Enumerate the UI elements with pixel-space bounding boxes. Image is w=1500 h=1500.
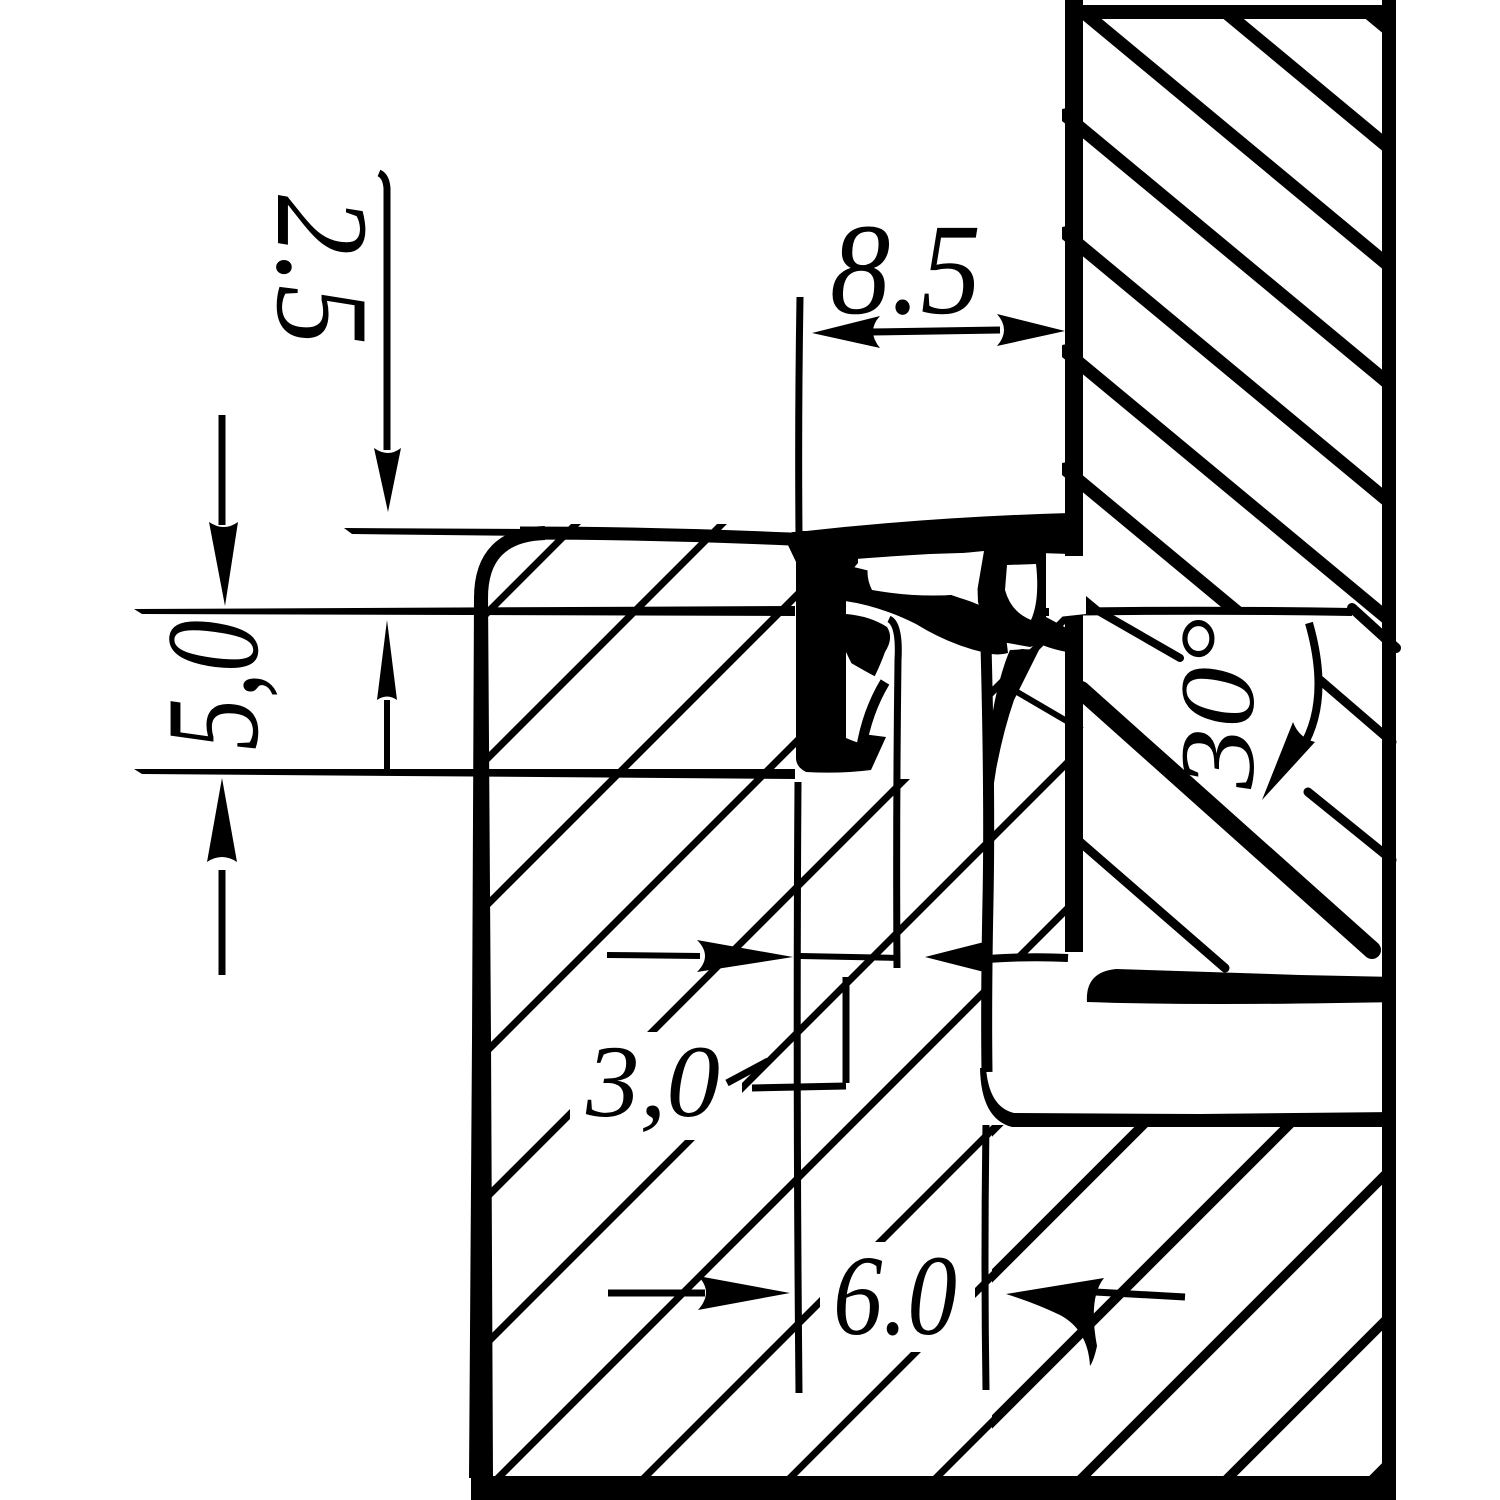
left edge	[469, 594, 493, 1478]
wire hatch lines	[1065, 0, 1500, 122]
svg-text:6.0: 6.0	[833, 1232, 957, 1359]
dimension line 3,0 left	[607, 955, 700, 956]
svg-text:3,0: 3,0	[585, 1025, 720, 1139]
surface line y=958	[987, 957, 1068, 959]
seal white gap right of arch	[1049, 556, 1086, 618]
dimension line 2.5	[379, 173, 387, 450]
dimension line 5,0 lower	[219, 870, 226, 975]
label halo 6.0	[820, 1242, 975, 1352]
right edge full height	[1382, 0, 1396, 1500]
svg-text:30°: 30°	[1159, 618, 1276, 790]
leader line from 3,0	[727, 1061, 768, 1083]
arrowhead 2.5 down	[374, 448, 401, 512]
surface line y=770	[134, 769, 795, 779]
label halo 3,0	[570, 1032, 742, 1140]
svg-text:5,0: 5,0	[139, 620, 286, 750]
surface line y=611 right part	[995, 611, 1352, 613]
wire hatch lines	[0, 0, 1130, 1130]
dimension line 6.0 left	[608, 1290, 705, 1297]
groove right wall	[986, 645, 989, 1072]
seal arch white hole	[1005, 564, 1037, 620]
dimension 6.0	[608, 1232, 1185, 1366]
slot line x=893	[889, 619, 898, 968]
arrowhead 6.0 left-pointing swept	[1006, 1278, 1104, 1366]
seal arch	[976, 545, 1046, 647]
inner arrowhead up	[377, 620, 397, 700]
dimension 8.5	[799, 198, 1065, 534]
arrowhead 8.5 right	[997, 314, 1065, 346]
seal C-notch white bay	[846, 660, 882, 744]
dimension 2.5	[249, 173, 401, 512]
arc arrow line	[1302, 623, 1318, 748]
surface line y=610	[134, 606, 795, 616]
top-left rounded corner	[481, 533, 545, 598]
arrowhead 5,0 down	[209, 522, 238, 606]
dimension line 8.5	[870, 330, 1000, 332]
inner dimension line x=387	[384, 700, 390, 770]
dimension 3,0	[585, 940, 992, 1139]
arrowhead 3,0 right-pointing	[697, 940, 793, 972]
seal diagonal arm	[845, 565, 1008, 655]
dimension line 6.0 right	[1095, 1292, 1185, 1297]
extension line x=986 lower	[985, 1125, 986, 1390]
seal left stem	[796, 531, 858, 772]
chamfer-zone sparse "\" hatch pieces, right part below y=611	[1080, 608, 1396, 968]
column top edge	[1065, 5, 1396, 19]
seal right leg	[983, 648, 1040, 796]
seal thin chamfer connector	[1000, 682, 1082, 730]
wire hatch lines	[492, 130, 1500, 1500]
left block outline	[134, 528, 986, 1478]
extension line x=800	[799, 297, 800, 534]
step outline	[752, 977, 846, 1088]
hatch group: top-right column, "\" direction	[1065, 0, 1500, 948]
top edge / surface line y=530	[344, 528, 530, 536]
seal stem foot	[806, 733, 886, 773]
bar2 top edge of bottom-right part	[980, 1068, 1396, 1127]
seal finger hook	[846, 614, 890, 688]
bottom bar	[471, 1476, 1396, 1500]
seal top bar	[786, 513, 1070, 564]
arrowhead 5,0 up	[207, 778, 237, 862]
column left edge	[1065, 0, 1083, 952]
dimension line 5,0 upper	[219, 415, 226, 525]
seal profile (black gasket)	[786, 513, 1086, 796]
arc arrowhead	[1262, 722, 1315, 800]
seal white wedge between bar and arm	[868, 551, 985, 596]
ledge bar under column	[1087, 969, 1396, 1004]
svg-text:2.5: 2.5	[249, 195, 396, 345]
arrowhead 6.0 right-pointing	[698, 1276, 790, 1310]
dimension 5,0	[139, 415, 397, 975]
svg-text:8.5: 8.5	[830, 198, 981, 342]
arrowhead 3,0 left-pointing taper	[925, 940, 992, 974]
dimension line 3,0 middle	[800, 956, 900, 958]
hatch group: bottom-right part, "/" direction	[492, 130, 1500, 1500]
seal crescent inside notch	[861, 682, 885, 749]
groove left wall / extension line x=798	[797, 782, 799, 1393]
arrowhead 8.5 left	[812, 316, 880, 348]
seal chamfer contact wedge	[1040, 617, 1083, 654]
frame right part outline	[471, 0, 1396, 1500]
dimension 30 deg with arc arrow	[1159, 618, 1318, 800]
